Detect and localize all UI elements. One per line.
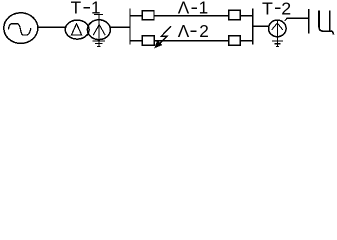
T1 wye arms bbox=[93, 25, 105, 36]
line L-1 bbox=[130, 15, 253, 17]
label L-1 bbox=[178, 0, 208, 18]
wire generator to T-1 bbox=[38, 26, 66, 28]
transformer T1 right winding circle bbox=[87, 20, 110, 40]
svg-text:T: T bbox=[262, 0, 273, 19]
T2 ground bar 1 bbox=[272, 40, 283, 42]
wire T-1 to left bus bbox=[110, 26, 130, 28]
T2 wye arms bbox=[272, 23, 283, 30]
right bus bbox=[252, 9, 254, 45]
svg-text:T: T bbox=[71, 0, 82, 17]
breaker rect line L-1 left bbox=[142, 11, 154, 20]
T1 neutral stem through right winding bbox=[98, 15, 100, 47]
T1 neutral bar above right winding bbox=[94, 14, 103, 16]
T2 wye stem bbox=[276, 20, 278, 46]
breaker rect line L-2 right bbox=[229, 36, 241, 45]
svg-text:Λ: Λ bbox=[178, 0, 190, 18]
T2 ground bar 3 bbox=[276, 45, 279, 47]
breaker rect line L-2 left bbox=[142, 36, 154, 45]
svg-text:2: 2 bbox=[199, 21, 209, 41]
load symbol Ts bbox=[319, 11, 334, 35]
T1 ground bar 3 bbox=[97, 45, 100, 47]
line L-2 bbox=[130, 40, 253, 42]
svg-text:Λ: Λ bbox=[178, 21, 190, 41]
left bus bbox=[129, 8, 131, 44]
T1 ground bar 2 bbox=[95, 43, 103, 45]
breaker rect line L-1 right bbox=[229, 10, 241, 19]
generator sine wave bbox=[8, 24, 31, 35]
wire right bus to T-2 bbox=[253, 25, 269, 27]
label T-2 bbox=[262, 0, 291, 19]
label T-1 bbox=[71, 0, 101, 17]
wire T-2 to load bbox=[285, 18, 309, 21]
svg-text:1: 1 bbox=[199, 0, 209, 18]
fault lightning bolt on L-2 bbox=[159, 26, 171, 44]
generator G bbox=[4, 13, 38, 44]
label L-2 bbox=[178, 21, 209, 41]
svg-text:1: 1 bbox=[91, 0, 101, 17]
svg-text:2: 2 bbox=[281, 0, 291, 19]
transformer T1 left winding circle bbox=[65, 20, 89, 39]
delta symbol in T1 left winding bbox=[72, 24, 82, 35]
T1 ground bar 1 bbox=[93, 40, 105, 42]
load terminal bar bbox=[308, 9, 310, 33]
transformer T2 circle bbox=[269, 20, 287, 37]
T2 ground bar 2 bbox=[274, 43, 280, 45]
